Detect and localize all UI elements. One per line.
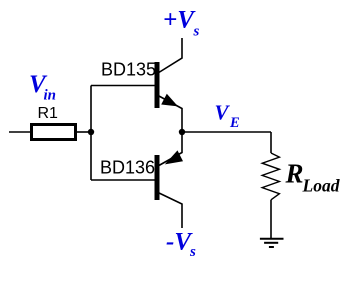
svg-text:Load: Load xyxy=(302,176,340,196)
svg-text:+V: +V xyxy=(163,7,196,34)
svg-text:R: R xyxy=(285,159,304,189)
svg-text:E: E xyxy=(229,115,240,131)
svg-text:s: s xyxy=(189,244,196,260)
svg-text:BD135: BD135 xyxy=(101,60,156,80)
svg-text:in: in xyxy=(44,88,57,104)
svg-text:BD136: BD136 xyxy=(100,158,155,178)
svg-text:V: V xyxy=(215,101,231,125)
svg-text:R1: R1 xyxy=(38,105,59,122)
svg-text:s: s xyxy=(193,24,200,40)
